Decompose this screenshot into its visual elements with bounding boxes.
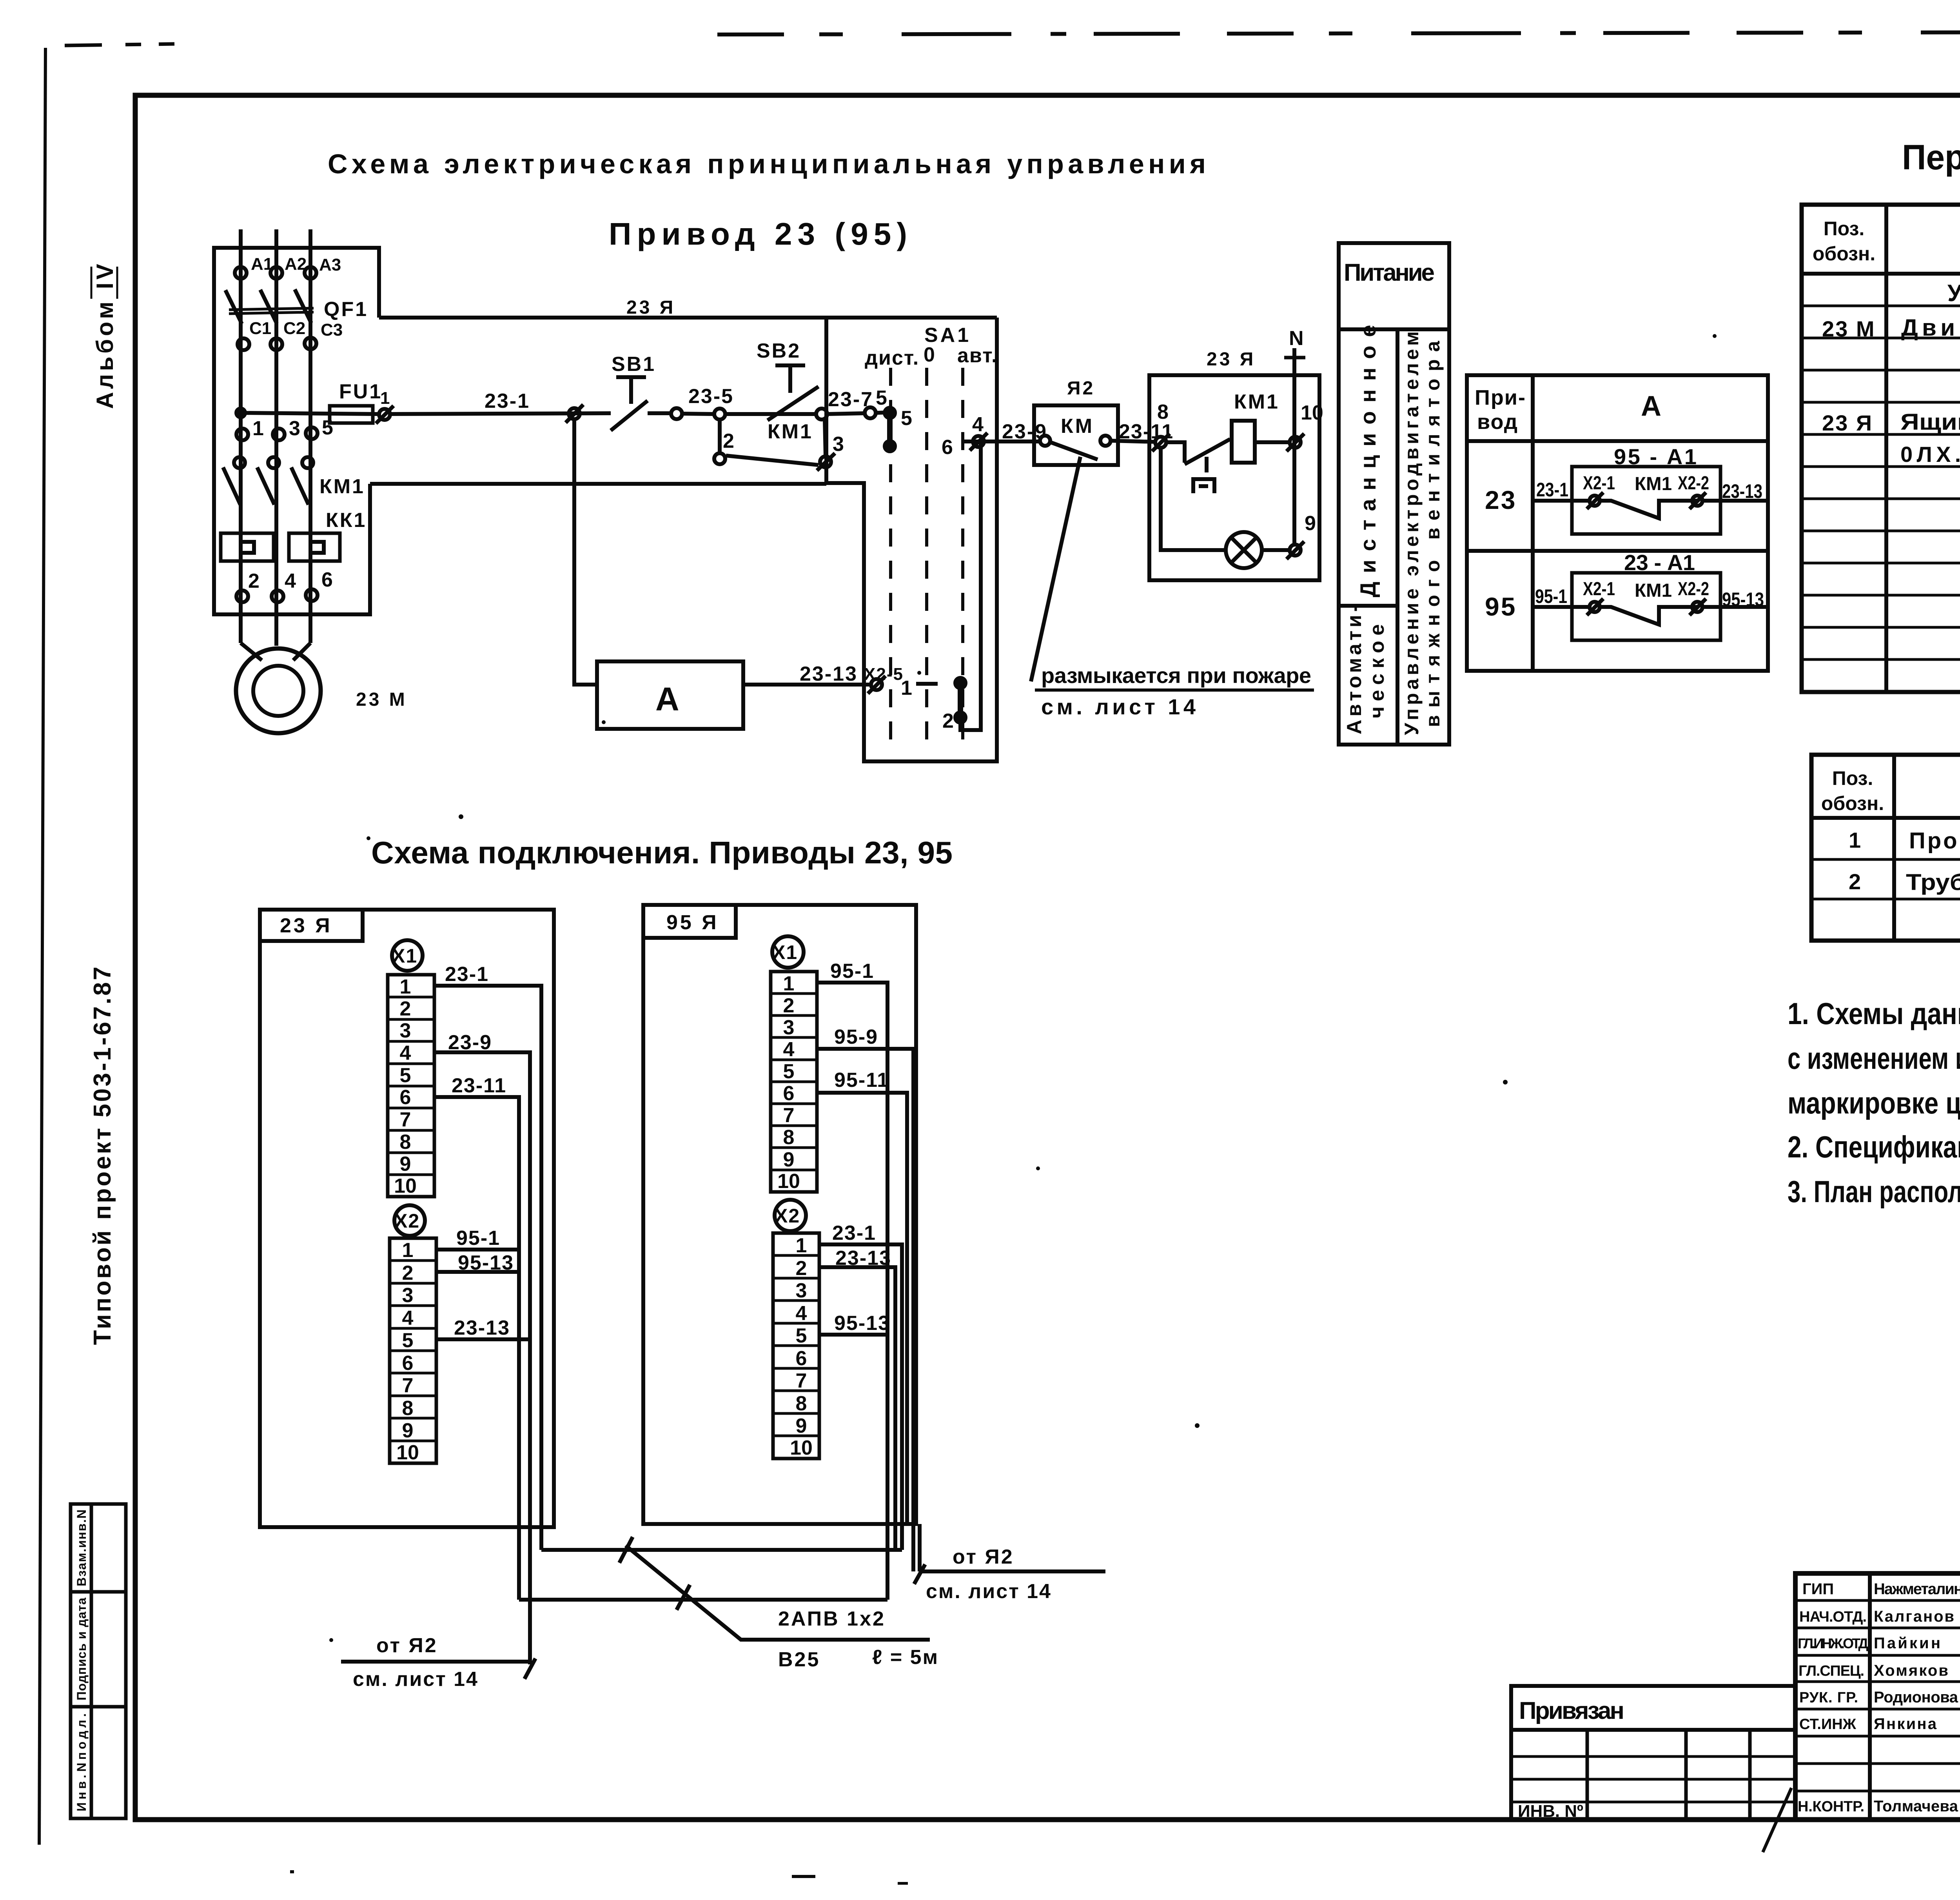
svg-text:2: 2 [248,570,260,592]
svg-text:Толмачева: Толмачева [1874,1798,1958,1815]
wire 95-1 from X1:1 right [817,983,887,1600]
box Я2 [1034,405,1118,465]
contactor coil KM1 [1232,421,1255,463]
right exit underline [920,1569,1105,1573]
svg-text:23 М: 23 М [356,689,407,710]
left stamp boxes [71,1504,126,1818]
coil to N wire [1255,440,1290,444]
SA1 terminal 1 tick [916,682,938,686]
svg-text:23 Я: 23 Я [1207,349,1256,370]
svg-text:23-7: 23-7 [828,388,873,411]
SA1 internal link to terminal 4 [960,442,981,730]
svg-text:Х1: Х1 [392,945,417,967]
svg-text:см. лист 14: см. лист 14 [353,1668,479,1691]
svg-text:В25: В25 [778,1648,820,1671]
svg-text:95: 95 [1485,592,1517,621]
svg-text:2: 2 [400,997,411,1020]
selector switch SA1 enclosure [826,318,997,761]
terminal on wire 23-1 [569,408,580,419]
contactor KM1 pole 1 [234,457,245,468]
svg-text:4: 4 [972,413,984,436]
svg-text:Н.КОНТР.: Н.КОНТР. [1798,1798,1864,1815]
svg-text:8: 8 [1157,401,1169,423]
wire 95-11 from X1:6 right [817,1093,907,1524]
phase wire L2 [274,229,278,646]
cable leader line [626,1546,930,1640]
terminal strip X2 right circle [775,1200,806,1231]
svg-text:1: 1 [402,1239,414,1262]
svg-text:23-1: 23-1 [485,390,530,412]
lamp branch wire [1161,448,1226,550]
slash mark on H2 [677,1585,690,1610]
svg-text:5: 5 [783,1060,795,1083]
svg-text:2: 2 [1849,869,1861,894]
svg-text:23-13: 23-13 [800,663,858,685]
terminal C3 [305,338,316,349]
svg-text:23 М: 23 М [1822,316,1876,341]
svg-text:У механизма: У механизма [1947,280,1960,306]
svg-text:Перечень: Перечень [1902,138,1960,177]
indicator lamp HL [1226,532,1262,568]
svg-text:9: 9 [783,1148,795,1171]
svg-text:РУК. ГР.: РУК. ГР. [1799,1689,1858,1706]
svg-text:QF1: QF1 [324,298,368,321]
svg-text:Поз.: Поз. [1824,218,1865,240]
wire to 23-5 [671,408,682,419]
svg-text:23-11: 23-11 [452,1074,506,1097]
svg-text:С1: С1 [249,319,271,338]
terminal after fuse [379,409,390,420]
svg-text:дист.: дист. [865,347,919,369]
svg-text:9: 9 [400,1153,411,1175]
svg-text:5: 5 [400,1064,411,1087]
terminal C1 [238,338,249,350]
terminal strip X2 left circle [394,1205,425,1236]
top trim dashed line [717,31,1960,35]
left attachment table [1511,1686,1795,1820]
svg-text:8: 8 [402,1397,414,1420]
svg-text:2: 2 [402,1262,414,1284]
terminal A3 [305,267,316,279]
svg-text:10: 10 [790,1437,813,1459]
svg-text:НАЧ.ОТД.: НАЧ.ОТД. [1799,1609,1867,1625]
svg-text:4: 4 [783,1038,795,1061]
terminal 8 [1155,437,1166,448]
svg-text:23 - А1: 23 - А1 [1624,550,1695,575]
terminal strip X1 left circle [392,940,423,971]
interconnection run H2 [519,1598,887,1602]
circuit breaker QF1 pole 2 blade [260,290,277,323]
svg-text:10: 10 [396,1441,419,1464]
svg-text:А3: А3 [319,255,341,274]
svg-text:95-1: 95-1 [830,960,874,983]
svg-text:6: 6 [942,436,953,459]
svg-text:Схема подключения. Приводы 23: Схема подключения. Приводы 23, 95 [371,835,953,870]
svg-text:Хомяков: Хомяков [1874,1662,1948,1679]
cabinet box 95Я right [643,905,916,1524]
terminal C2 [270,338,282,350]
interconnection run H1 [541,1548,902,1552]
svg-text:23 Я: 23 Я [1822,411,1873,435]
svg-text:1: 1 [380,389,390,408]
scan speckles [290,186,1960,1885]
SA1 contact 5-6 closed bar [887,413,893,446]
drive table box [1467,375,1768,671]
svg-text:8: 8 [400,1131,411,1153]
SA1 contact 1-2 closed bar [958,683,963,717]
signature row lines [1795,1599,1960,1602]
svg-text:6: 6 [321,569,333,591]
svg-text:При-: При- [1475,386,1526,409]
svg-text:4: 4 [400,1042,411,1064]
svg-text:3: 3 [289,417,300,440]
terminal X2-5 [871,679,882,690]
svg-text:А: А [655,681,679,717]
svg-text:2: 2 [942,710,954,732]
row 23 wire [1534,499,1590,503]
thermal contact KK1 in coil circuit [1166,442,1185,463]
svg-text:23-11: 23-11 [1119,420,1174,443]
svg-text:5: 5 [901,407,912,430]
svg-text:2: 2 [723,430,734,452]
legend box [1339,243,1449,745]
svg-text:5: 5 [322,416,333,439]
wire 95-13 from X2:2 [436,1270,519,1274]
junction on L1 [236,409,245,417]
svg-text:23: 23 [1485,485,1517,514]
svg-text:маркировке цепей управления: маркировке цепей управления с 23 соответ… [1788,1086,1960,1120]
svg-text:Нажметалин: Нажметалин [1874,1580,1960,1598]
terminal A2 [270,267,282,279]
svg-text:23-1: 23-1 [832,1222,876,1244]
svg-text:6: 6 [400,1086,411,1109]
wire 23-1 from X1:1 [434,986,541,1550]
terminal 6 [306,589,318,601]
svg-text:6: 6 [783,1082,795,1105]
svg-text:Х2-5: Х2-5 [864,665,904,684]
svg-text:ИНВ. Nº: ИНВ. Nº [1518,1802,1583,1821]
control tap wire from L1 [241,413,378,414]
svg-text:4: 4 [796,1302,807,1325]
terminal 10 [1290,437,1301,448]
SA1 position line 0 [925,368,928,748]
automation unit A box [597,661,743,729]
svg-text:Поз.: Поз. [1832,767,1873,789]
svg-text:КМ1: КМ1 [1635,580,1672,601]
svg-text:95-13: 95-13 [834,1312,890,1335]
terminal strip X2 left [390,1238,436,1463]
svg-text:Х2: Х2 [775,1205,800,1227]
left exit underline [341,1660,530,1664]
cabinet box 23Я left [260,910,554,1527]
svg-text:1: 1 [901,677,912,699]
fire note leader shelf [1035,688,1314,692]
svg-text:КМ1: КМ1 [319,475,365,498]
svg-text:Питание: Питание [1344,259,1435,286]
svg-text:8: 8 [783,1126,795,1149]
svg-text:Ящик управления Я5111-2274УХЛ4: Ящик управления Я5111-2274УХЛ4 [1900,409,1960,435]
wire 23-13 from X2:2 right [819,1267,895,1550]
thermal relay KK1 element 2 [289,533,340,561]
wire 23-11 from X1:6 [434,1097,519,1600]
terminal 1 [236,429,248,440]
svg-text:см. лист 14: см. лист 14 [926,1580,1052,1603]
svg-text:4: 4 [285,570,296,592]
terminal A1 [235,267,247,279]
svg-text:СТ.ИНЖ: СТ.ИНЖ [1799,1716,1857,1733]
wire 95-9 from X1:4 right [817,1049,913,1571]
svg-text:4: 4 [402,1307,414,1330]
svg-text:2: 2 [783,994,795,1017]
svg-text:5: 5 [796,1324,807,1347]
contactor KM1 pole 3 [302,457,313,468]
terminal 3 [273,429,285,440]
SA1 position line dist [889,368,892,748]
signature column verticals [1868,1573,1872,1820]
circuit breaker QF1 linkage bar [229,308,314,310]
svg-text:см. лист 14: см. лист 14 [1041,694,1196,719]
svg-text:9: 9 [1305,512,1316,535]
svg-text:0: 0 [924,343,935,366]
terminal 5 [306,427,318,439]
svg-text:КК1: КК1 [326,509,367,532]
svg-text:1: 1 [783,972,795,995]
terminal strip X2 right [773,1233,819,1459]
svg-text:2: 2 [796,1257,807,1280]
wire 23-9 to box Я2 [997,440,1040,443]
svg-text:от Я2: от Я2 [953,1546,1014,1568]
neutral N line [1292,348,1296,546]
junction circle at self-hold branch [714,409,725,420]
svg-text:23 Я: 23 Я [626,297,675,318]
svg-text:1: 1 [400,975,411,998]
phase wire L1 [239,229,243,643]
starter cabinet box 23Я [214,248,379,614]
svg-text:23-13: 23-13 [835,1247,891,1270]
svg-text:3: 3 [833,433,844,456]
title block frame [1795,1573,1960,1820]
wire to terminal 4 [963,440,1034,443]
start button SB2 [775,363,805,367]
svg-text:9: 9 [796,1415,807,1437]
svg-text:7: 7 [796,1370,807,1392]
control wire 23-1 [390,413,611,414]
svg-text:Я2: Я2 [1067,378,1095,399]
svg-text:23-9: 23-9 [1002,420,1047,443]
svg-text:ГЛ.ИНЖ.ОТД: ГЛ.ИНЖ.ОТД [1798,1635,1868,1651]
svg-text:10: 10 [1301,401,1323,424]
svg-text:N: N [1289,327,1304,350]
svg-text:3: 3 [400,1019,411,1042]
circuit breaker QF1 pole 1 blade [225,290,242,324]
motor 23M circle [236,648,321,733]
svg-text:А: А [1641,391,1661,422]
row 95 contact box [1572,573,1720,640]
svg-text:7: 7 [400,1108,411,1131]
svg-text:Х2-2: Х2-2 [1678,473,1709,494]
svg-text:КМ1: КМ1 [768,420,813,443]
svg-text:Х2: Х2 [394,1210,420,1232]
svg-text:Х2-2: Х2-2 [1678,579,1709,599]
svg-text:95-9: 95-9 [834,1026,878,1048]
svg-text:3: 3 [796,1279,807,1302]
svg-text:95-11: 95-11 [834,1069,889,1092]
svg-text:95-1: 95-1 [456,1227,500,1250]
wire 23-9 from X1:4 [434,1052,530,1664]
svg-text:КМ: КМ [1061,415,1094,438]
svg-text:23-13: 23-13 [454,1317,510,1339]
wire 23-13 from X2:5 [436,1337,530,1341]
svg-text:3: 3 [783,1016,795,1039]
sheet left trim line [39,48,45,1845]
bus lower from cabinet [370,482,826,486]
svg-text:А1: А1 [251,254,273,274]
svg-text:Труба ПВХ-В-РЭП25У; ТУ6-19-215: Труба ПВХ-В-РЭП25У; ТУ6-19-215-83 [1906,870,1960,895]
leader line fire note [1031,457,1080,681]
circuit breaker QF1 pole 3 blade [295,289,311,323]
terminal strip X1 left [388,975,434,1197]
svg-text:23-1: 23-1 [445,963,489,986]
element list grid [1802,205,1960,692]
terminal 4 [272,590,283,602]
automation unit A feed wire [574,419,597,685]
wire 23-13 [743,683,871,687]
svg-text:2АПВ 1х2: 2АПВ 1х2 [778,1608,886,1630]
SA1 position line avt [961,368,964,748]
slash mark on H1 [619,1537,633,1563]
svg-text:Провод АПВ2-380; ГОСТ 6323-: Провод АПВ2-380; ГОСТ 6323- 79* [1909,828,1960,854]
svg-text:Подпись и дата: Подпись и дата [74,1598,89,1700]
svg-text:SВ1: SВ1 [612,353,656,376]
svg-text:ГИП: ГИП [1802,1580,1834,1598]
svg-text:3: 3 [402,1284,414,1307]
svg-text:9: 9 [402,1419,414,1442]
svg-text:6: 6 [402,1352,414,1375]
svg-text:вод: вод [1477,410,1518,434]
bus 23Я top [379,316,997,320]
svg-text:95-13: 95-13 [458,1252,514,1274]
svg-text:1: 1 [252,417,264,440]
svg-text:1: 1 [796,1234,807,1257]
svg-text:размыкается при пожаре: размыкается при пожаре [1041,663,1311,688]
svg-text:5: 5 [876,387,887,409]
terminal strip X1 right circle [772,936,804,968]
terminal 2 [236,590,248,602]
fire relay contact KM in Я2 [1040,436,1050,446]
svg-text:от Я2: от Я2 [376,1634,438,1657]
svg-text:23-1: 23-1 [1536,479,1568,501]
svg-text:23-9: 23-9 [448,1031,492,1054]
svg-text:10: 10 [777,1170,800,1193]
svg-text:Альбом IV: Альбом IV [92,264,118,409]
svg-text:SВ2: SВ2 [757,340,801,362]
svg-text:Автомати-: Автомати- [1343,605,1366,734]
right exit drop [918,1524,922,1571]
svg-text:1. Схемы даны для привода: 1. Схемы даны для привода 23 и применены… [1788,996,1960,1031]
wire 23-11 [1111,441,1156,442]
svg-text:95-13: 95-13 [1722,589,1764,610]
svg-text:10: 10 [394,1175,417,1197]
svg-text:ГЛ.СПЕЦ.: ГЛ.СПЕЦ. [1798,1663,1864,1679]
svg-text:8: 8 [796,1392,807,1415]
svg-text:95 Я: 95 Я [666,911,719,934]
svg-text:С3: С3 [321,320,343,340]
svg-text:с изменением индекса перед: с изменением индекса перед обозначением … [1788,1041,1960,1075]
svg-text:Привязан: Привязан [1519,1697,1624,1724]
svg-text:5: 5 [402,1329,414,1352]
svg-text:Х2-1: Х2-1 [1583,473,1615,494]
svg-text:Х1: Х1 [772,941,798,963]
lamp to terminal 9 [1262,548,1290,552]
wire 95-13 from X2:5 right [819,1333,887,1337]
svg-text:Взам.инв.N: Взам.инв.N [74,1509,89,1586]
lamp cabinet box 23Я [1149,375,1319,580]
svg-text:С2: С2 [283,319,305,338]
left exit arrow tick [524,1658,535,1679]
stray pen slash [1763,1788,1791,1852]
terminal 9 [1290,545,1301,556]
svg-text:7: 7 [783,1104,795,1127]
phase wire L3 [309,229,312,643]
svg-text:А2: А2 [285,254,307,274]
svg-text:Калганов: Калганов [1874,1608,1954,1625]
row 23 contact box [1572,467,1720,534]
contactor self-hold contact KM1 [718,420,722,453]
contactor KM1 pole 2 [268,457,279,468]
svg-text:FU1: FU1 [339,380,382,403]
svg-text:95-1: 95-1 [1535,585,1567,607]
terminal strip X1 right [771,972,817,1192]
wire 23-1 from X2:1 right [819,1244,902,1550]
svg-text:7: 7 [402,1374,414,1397]
svg-text:Двигатель: Двигатель [1901,314,1960,341]
svg-text:23-5: 23-5 [688,385,734,408]
row 95 wire [1534,605,1590,609]
svg-text:23-13: 23-13 [1722,480,1762,502]
svg-text:6: 6 [796,1347,807,1370]
svg-text:КМ1: КМ1 [1635,474,1672,494]
stop button SB1 [616,375,646,379]
svg-text:ℓ = 5м: ℓ = 5м [872,1646,939,1669]
svg-text:3. План расположения см. лис: 3. План расположения см. лист 1Б. [1788,1174,1960,1209]
svg-text:2. Спецификация дана для пр: 2. Спецификация дана для приводов 23, 95… [1788,1130,1960,1164]
wire 23-7 [816,409,827,420]
motor feeder bends [241,643,262,660]
fuse FU1 [330,406,373,423]
svg-text:1: 1 [1849,828,1861,852]
thermal relay KK1 element 1 [221,533,274,561]
svg-text:обозн.: обозн. [1821,792,1884,814]
svg-text:КМ1: КМ1 [1234,391,1279,413]
wire 95-1 from X2:1 [436,1248,519,1252]
svg-text:23 Я: 23 Я [280,914,332,937]
svg-text:Родионова: Родионова [1874,1689,1958,1706]
specification grid [1811,755,1960,941]
svg-text:Х2-1: Х2-1 [1583,579,1615,599]
svg-text:авт.: авт. [957,344,998,367]
svg-text:обозн.: обозн. [1813,243,1875,265]
